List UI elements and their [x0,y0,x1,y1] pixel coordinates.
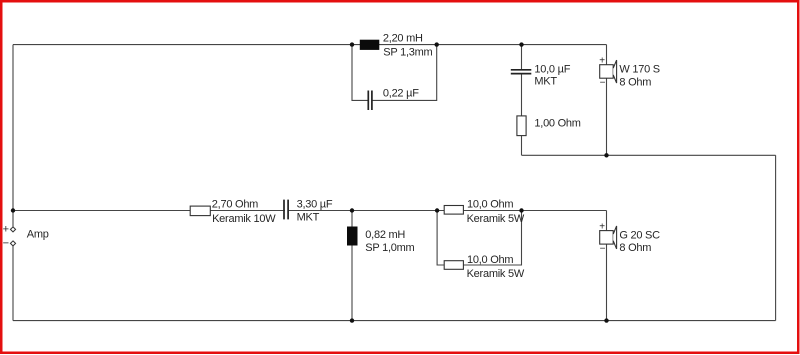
amp terminal + (diamond) [10,227,15,232]
svg-text:10,0 µF: 10,0 µF [534,64,570,76]
wire: right return vertical [775,155,777,320]
resistor R1 1,00 Ohm [517,116,526,136]
wire: bottom return rail [13,320,776,322]
svg-text:−: − [3,238,9,250]
wire: L2 shunt vertical [351,211,353,321]
amp terminal - (diamond) [10,241,15,246]
svg-text:+: + [599,221,605,232]
wire: L1 parallel loop with C1 [352,45,437,101]
wire: left vertical from top rail to amp + node [12,45,14,211]
svg-text:MKT: MKT [297,212,320,224]
resistor R2 2,70 Ohm [190,206,210,216]
svg-text:Keramik 5W: Keramik 5W [467,213,525,225]
node G: R-parallel left junction [435,208,439,212]
svg-text:−: − [600,244,606,255]
wire: top rail from amp+ to W170S branch [13,44,607,46]
svg-text:+: + [3,223,9,235]
svg-text:0,22 µF: 0,22 µF [383,87,419,99]
node H: R-parallel right junction [519,208,523,212]
node F: L2 top junction [350,208,354,212]
svg-text:2,20 mH: 2,20 mH [383,32,423,44]
svg-text:2,70 Ohm: 2,70 Ohm [212,198,258,210]
svg-text:MKT: MKT [534,75,557,87]
svg-text:10,0 Ohm: 10,0 Ohm [467,198,513,210]
wire: parallel resistor loop [437,211,521,266]
wire: mid rail from amp+ to G20SC branch [13,210,607,212]
node J: G20SC minus junction [604,318,608,322]
svg-text:8 Ohm: 8 Ohm [619,242,651,254]
node I: L2 bottom junction [350,318,354,322]
wire: C2/R1 shunt branch vertical [521,45,523,156]
inductor L2 0,82 mH [347,227,358,246]
svg-text:Keramik 10W: Keramik 10W [212,213,276,225]
inductor L1 2,20 mH [360,40,380,50]
node B: L1 left junction [350,42,354,46]
svg-text:Keramik 5W: Keramik 5W [467,268,525,280]
wire: G20SC speaker vertical [606,211,608,321]
node C: L1 right junction [435,42,439,46]
svg-text:10,0 Ohm: 10,0 Ohm [467,254,513,266]
svg-text:SP 1,3mm: SP 1,3mm [383,47,432,59]
svg-text:Amp: Amp [27,228,49,240]
wire: amp terminal stubs [12,211,14,321]
svg-text:8 Ohm: 8 Ohm [619,77,651,89]
svg-text:−: − [600,78,606,89]
capacitor C3 3,30 µF [285,209,288,213]
svg-text:G 20 SC: G 20 SC [619,229,660,241]
wire: shunt rail y=155 to right vertical [522,154,776,156]
svg-text:SP 1,0mm: SP 1,0mm [365,242,414,254]
resistor R3 10,0 Ohm (upper) [444,206,463,215]
svg-text:3,30 µF: 3,30 µF [297,198,333,210]
svg-text:W 170 S: W 170 S [619,63,659,75]
svg-text:0,82 mH: 0,82 mH [365,229,405,241]
capacitor C2 10,0 µF [511,70,532,74]
speaker LS2 G 20 SC [599,221,616,254]
svg-text:1,00 Ohm: 1,00 Ohm [534,117,580,129]
capacitor C1 0,22 µF [368,91,372,111]
wire: W170S speaker vertical [606,45,608,156]
node D: C2 top junction [519,42,523,46]
speaker LS1 W 170 S [599,55,616,88]
resistor R4 10,0 Ohm (lower) [444,261,463,270]
node A: amp+ junction [11,208,15,212]
node E: W170S minus junction [604,153,608,157]
svg-text:+: + [599,55,605,66]
